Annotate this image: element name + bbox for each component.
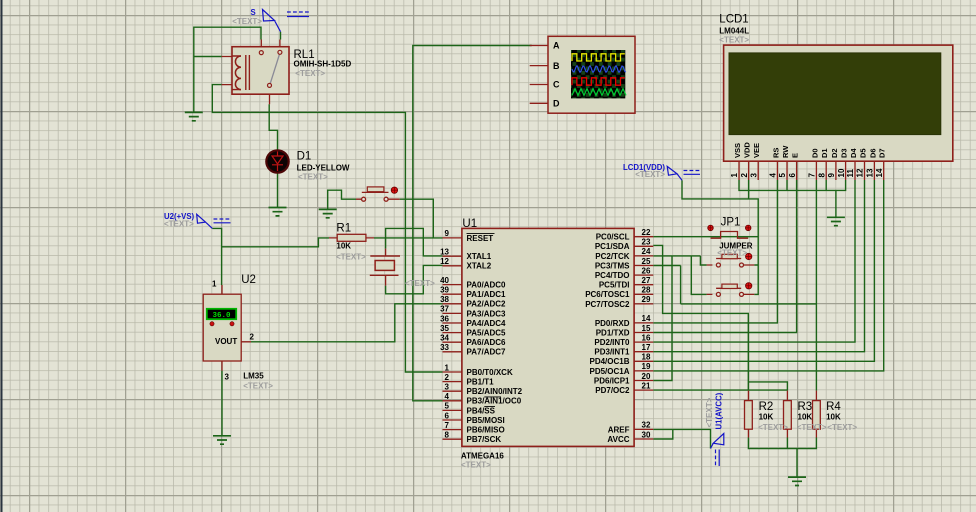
svg-text:PD4/OC1B: PD4/OC1B <box>589 357 629 366</box>
svg-text:14: 14 <box>875 168 884 177</box>
svg-text:7: 7 <box>808 173 817 178</box>
svg-text:PC2/TCK: PC2/TCK <box>595 252 629 261</box>
svg-text:PC7/TOSC2: PC7/TOSC2 <box>585 300 630 309</box>
svg-text:LED-YELLOW: LED-YELLOW <box>297 164 350 173</box>
svg-text:6: 6 <box>445 411 450 420</box>
svg-text:10K: 10K <box>759 413 774 422</box>
svg-text:25: 25 <box>642 257 651 266</box>
svg-text:<TEXT>: <TEXT> <box>461 461 491 470</box>
svg-text:U1(AVCC): U1(AVCC) <box>715 392 724 429</box>
svg-text:34: 34 <box>440 334 449 343</box>
svg-text:16: 16 <box>642 333 651 342</box>
svg-text:RS: RS <box>771 148 780 158</box>
svg-text:D4: D4 <box>849 148 858 158</box>
svg-text:XTAL1: XTAL1 <box>467 252 492 261</box>
svg-text:PD0/RXD: PD0/RXD <box>595 319 630 328</box>
svg-text:PB4/SS: PB4/SS <box>467 406 496 415</box>
svg-text:20: 20 <box>642 372 651 381</box>
svg-text:32: 32 <box>642 421 651 430</box>
svg-text:LM044L: LM044L <box>719 27 749 36</box>
svg-text:37: 37 <box>440 305 449 314</box>
svg-text:RESET: RESET <box>467 234 494 243</box>
svg-text:PD3/INT1: PD3/INT1 <box>594 348 630 357</box>
svg-text:R2: R2 <box>759 401 774 413</box>
svg-text:4: 4 <box>769 173 778 178</box>
svg-text:11: 11 <box>846 168 855 177</box>
svg-text:OMIH-SH-1D5D: OMIH-SH-1D5D <box>294 60 352 69</box>
svg-text:R3: R3 <box>798 401 813 413</box>
svg-text:10K: 10K <box>798 413 813 422</box>
svg-text:VEE: VEE <box>752 143 761 158</box>
svg-text:PA7/ADC7: PA7/ADC7 <box>467 348 507 357</box>
svg-text:23: 23 <box>642 238 651 247</box>
svg-text:<TEXT>: <TEXT> <box>295 69 325 78</box>
svg-text:24: 24 <box>642 247 651 256</box>
svg-text:PA6/ADC6: PA6/ADC6 <box>467 338 507 347</box>
svg-text:14: 14 <box>642 314 651 323</box>
svg-text:<TEXT>: <TEXT> <box>243 382 273 391</box>
svg-text:27: 27 <box>642 276 651 285</box>
svg-text:9: 9 <box>827 173 836 178</box>
svg-text:5: 5 <box>778 173 787 178</box>
svg-text:B: B <box>553 61 560 71</box>
svg-text:PD6/ICP1: PD6/ICP1 <box>594 376 630 385</box>
svg-text:XTAL2: XTAL2 <box>467 262 492 271</box>
svg-text:PB7/SCK: PB7/SCK <box>467 435 502 444</box>
svg-text:<TEXT>: <TEXT> <box>705 397 714 427</box>
svg-text:18: 18 <box>642 353 651 362</box>
svg-text:PB5/MOSI: PB5/MOSI <box>467 416 505 425</box>
svg-text:D7: D7 <box>878 148 887 158</box>
svg-text:<TEXT>: <TEXT> <box>717 249 747 258</box>
svg-text:PD2/INT0: PD2/INT0 <box>594 338 630 347</box>
svg-text:PA0/ADC0: PA0/ADC0 <box>467 281 507 290</box>
svg-text:E: E <box>791 153 800 158</box>
svg-text:12: 12 <box>856 168 865 177</box>
svg-text:<TEXT>: <TEXT> <box>232 17 262 26</box>
svg-text:<TEXT>: <TEXT> <box>719 36 749 45</box>
svg-text:PD7/OC2: PD7/OC2 <box>595 386 630 395</box>
svg-text:10K: 10K <box>826 413 841 422</box>
svg-text:29: 29 <box>642 295 651 304</box>
svg-text:PC1/SDA: PC1/SDA <box>595 242 630 251</box>
svg-text:17: 17 <box>642 343 651 352</box>
svg-text:15: 15 <box>642 324 651 333</box>
svg-text:LCD1: LCD1 <box>719 14 748 26</box>
svg-text:<TEXT>: <TEXT> <box>298 173 328 182</box>
svg-text:PB0/T0/XCK: PB0/T0/XCK <box>467 368 513 377</box>
svg-text:33: 33 <box>440 343 449 352</box>
svg-text:A: A <box>553 41 560 51</box>
svg-text:28: 28 <box>642 286 651 295</box>
svg-text:PC0/SCL: PC0/SCL <box>596 233 630 242</box>
svg-text:VDD: VDD <box>743 142 752 158</box>
svg-text:RW: RW <box>781 145 790 158</box>
svg-text:VOUT: VOUT <box>215 337 237 346</box>
svg-text:PA1/ADC1: PA1/ADC1 <box>467 290 507 299</box>
svg-text:D5: D5 <box>859 148 868 158</box>
svg-text:PA2/ADC2: PA2/ADC2 <box>467 300 507 309</box>
svg-text:U1: U1 <box>462 218 477 230</box>
svg-text:<TEXT>: <TEXT> <box>336 253 366 262</box>
svg-text:U2(+VS): U2(+VS) <box>164 212 195 221</box>
svg-text:PD1/TXD: PD1/TXD <box>596 328 630 337</box>
svg-text:<TEXT>: <TEXT> <box>797 423 827 432</box>
svg-text:D6: D6 <box>868 148 877 158</box>
svg-text:2: 2 <box>445 373 450 382</box>
svg-text:4: 4 <box>445 392 450 401</box>
svg-text:D1: D1 <box>820 148 829 158</box>
svg-text:13: 13 <box>440 248 449 257</box>
svg-text:D3: D3 <box>840 148 849 158</box>
svg-text:PC3/TMS: PC3/TMS <box>595 261 630 270</box>
svg-text:PA4/ADC4: PA4/ADC4 <box>467 319 507 328</box>
svg-text:D: D <box>553 99 560 109</box>
svg-text:D2: D2 <box>830 148 839 158</box>
svg-text:<TEXT>: <TEXT> <box>758 423 788 432</box>
svg-text:36: 36 <box>440 314 449 323</box>
svg-text:35: 35 <box>440 324 449 333</box>
svg-text:AVCC: AVCC <box>607 435 629 444</box>
svg-text:PB6/MISO: PB6/MISO <box>467 426 505 435</box>
svg-text:5: 5 <box>445 402 450 411</box>
svg-text:C: C <box>553 80 560 90</box>
svg-text:26: 26 <box>642 266 651 275</box>
svg-text:PD5/OC1A: PD5/OC1A <box>589 367 629 376</box>
svg-text:<TEXT>: <TEXT> <box>405 279 435 288</box>
svg-text:21: 21 <box>642 381 651 390</box>
svg-text:9: 9 <box>445 229 450 238</box>
svg-text:1: 1 <box>212 280 217 289</box>
svg-text:3: 3 <box>749 173 758 178</box>
svg-text:3: 3 <box>445 383 450 392</box>
svg-text:D0: D0 <box>810 148 819 158</box>
svg-text:PB3/AIN1/OC0: PB3/AIN1/OC0 <box>467 397 522 406</box>
svg-text:1: 1 <box>730 173 739 178</box>
svg-text:1: 1 <box>445 363 450 372</box>
svg-text:6: 6 <box>788 173 797 178</box>
svg-text:JP1: JP1 <box>721 217 741 229</box>
svg-text:S: S <box>251 8 256 17</box>
svg-text:22: 22 <box>642 228 651 237</box>
svg-text:19: 19 <box>642 362 651 371</box>
svg-text:30: 30 <box>642 430 651 439</box>
svg-text:D1: D1 <box>297 151 312 163</box>
svg-text:R4: R4 <box>826 401 841 413</box>
svg-text:3: 3 <box>225 373 230 382</box>
svg-text:36.0: 36.0 <box>212 312 231 320</box>
svg-text:PB1/T1: PB1/T1 <box>467 378 495 387</box>
svg-text:<TEXT>: <TEXT> <box>827 423 857 432</box>
svg-text:PC6/TOSC1: PC6/TOSC1 <box>585 290 630 299</box>
svg-text:2: 2 <box>740 173 749 178</box>
svg-text:PC4/TDO: PC4/TDO <box>595 271 630 280</box>
svg-text:10K: 10K <box>336 242 351 251</box>
svg-text:12: 12 <box>440 257 449 266</box>
svg-text:PA3/ADC3: PA3/ADC3 <box>467 309 507 318</box>
svg-text:8: 8 <box>445 431 450 440</box>
svg-text:7: 7 <box>445 421 450 430</box>
svg-text:10: 10 <box>837 168 846 177</box>
svg-text:U2: U2 <box>241 274 256 286</box>
svg-text:VSS: VSS <box>733 143 742 158</box>
svg-text:LCD1(VDD): LCD1(VDD) <box>623 163 665 172</box>
svg-text:ATMEGA16: ATMEGA16 <box>461 452 505 461</box>
svg-text:39: 39 <box>440 286 449 295</box>
svg-text:PB2/AIN0/INT2: PB2/AIN0/INT2 <box>467 387 523 396</box>
svg-text:38: 38 <box>440 295 449 304</box>
svg-text:R1: R1 <box>336 223 351 235</box>
svg-text:AREF: AREF <box>608 425 630 434</box>
svg-text:2: 2 <box>250 333 255 342</box>
svg-text:LM35: LM35 <box>243 372 264 381</box>
svg-text:8: 8 <box>817 173 826 178</box>
svg-text:PA5/ADC5: PA5/ADC5 <box>467 329 507 338</box>
svg-text:40: 40 <box>440 276 449 285</box>
svg-text:13: 13 <box>866 168 875 177</box>
svg-text:PC5/TDI: PC5/TDI <box>599 281 630 290</box>
